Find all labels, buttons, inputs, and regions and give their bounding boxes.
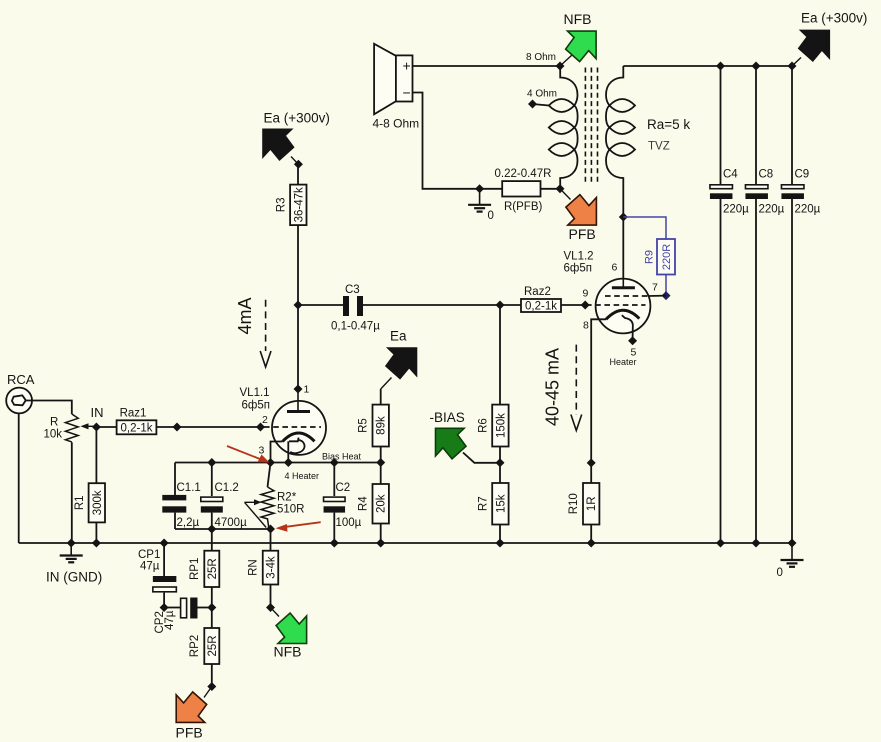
svg-text:0,2-1k: 0,2-1k — [121, 422, 153, 434]
svg-text:220R: 220R — [661, 244, 673, 270]
wire: primary bottom to VL1.2 plate (pin 6) — [622, 217, 624, 287]
svg-text:Ea (+300v): Ea (+300v) — [264, 111, 330, 126]
svg-text:RCA: RCA — [7, 372, 35, 387]
label C2 — [336, 482, 351, 494]
resistor Raz1 0,2-1k — [117, 407, 157, 434]
terminal: VL1.1 pin 1 — [294, 385, 303, 394]
value 47µ of CP2 — [164, 610, 176, 630]
wire: cathode node down through bus to RP1 (no connection at bus) — [211, 529, 213, 551]
label Ea (+300v) above R3 — [264, 111, 330, 126]
capacitor CP1 47µ — [153, 576, 177, 592]
svg-text:4 Heater: 4 Heater — [285, 471, 320, 481]
svg-text:NFB: NFB — [564, 11, 592, 27]
connector RCA — [6, 388, 32, 414]
label C1.1 — [177, 482, 201, 494]
value 4700µ of C1.2 — [215, 517, 248, 529]
wire: RN bottom to NFB node — [270, 585, 272, 608]
label TVZ — [648, 141, 670, 153]
svg-text:VL1.1: VL1.1 — [240, 387, 270, 399]
svg-text:R7: R7 — [477, 496, 489, 511]
svg-text:20k: 20k — [376, 494, 388, 513]
label IN — [91, 405, 104, 420]
svg-text:IN (GND): IN (GND) — [46, 570, 102, 585]
svg-text:NFB: NFB — [274, 644, 302, 660]
power arrow Ea (+300v) to R3 — [263, 129, 298, 164]
wire: RCA hot to pot top — [26, 401, 72, 415]
junction: pin 7 / R9 (navy) — [662, 291, 671, 300]
svg-text:0,1-0.47µ: 0,1-0.47µ — [331, 321, 380, 333]
svg-text:C3: C3 — [345, 284, 360, 296]
resistor Raz2 0,2-1k — [521, 286, 561, 313]
wire: CP1 node to CP2 — [164, 607, 180, 609]
label 4 Heater — [285, 471, 320, 481]
bias arrow -BIAS — [436, 428, 467, 459]
wire: IN node down to R1 — [95, 427, 97, 483]
svg-text:0: 0 — [488, 210, 494, 222]
value 220µ of C4 — [723, 204, 749, 216]
capacitor C1.1 2,2µ — [162, 495, 186, 513]
wire: 4 Ohm tap lead — [533, 104, 549, 106]
value 10k (pot) — [44, 429, 63, 441]
wire: bias node to -BIAS arrow — [463, 453, 500, 463]
resistor R(PFB) 0.22-0.47R — [495, 168, 552, 213]
svg-text:0,2-1k: 0,2-1k — [525, 301, 557, 313]
value 220µ of C9 — [795, 204, 821, 216]
wire: R2/RN node down through bus to RN (no connection at bus) — [270, 529, 272, 551]
svg-text:RN: RN — [248, 559, 260, 576]
wire: pin 8 cathode down to R10 — [591, 319, 606, 483]
wire: Ea node to R3 top — [297, 164, 299, 184]
label PFB top — [569, 226, 596, 242]
VL1.2 anode (pin 6) — [612, 279, 635, 288]
wire: R7 bottom to ground bus — [499, 525, 501, 544]
wire: C1.1 top lead — [174, 463, 176, 496]
label Heater (VL1.2) — [610, 357, 637, 367]
junction: C1.2 bottom — [207, 525, 216, 534]
svg-text:R9: R9 — [644, 250, 656, 264]
junction: CP1 top on bus — [160, 539, 169, 548]
svg-text:+: + — [403, 58, 411, 74]
label CP2 — [154, 611, 166, 633]
svg-text:RP1: RP1 — [189, 558, 201, 580]
VL1.1 grid (pin 2, dashed) — [264, 426, 321, 428]
pin label 8 — [583, 320, 589, 332]
svg-text:RP2: RP2 — [189, 635, 201, 657]
resistor R9 220R (blue) — [644, 239, 676, 275]
capacitor C1.2 4700µ — [201, 497, 223, 512]
pot R wiper arrow — [81, 423, 97, 429]
transformer primary winding — [606, 66, 635, 217]
wire: RCA ground side down — [18, 413, 20, 543]
junction: PFB terminal node — [207, 682, 216, 691]
junction: Ea arrow to R3 — [294, 160, 303, 169]
junction: heater pin 4 node — [284, 458, 293, 467]
label 8 Ohm — [526, 52, 556, 63]
value 100µ of C2 — [336, 517, 362, 529]
wire: speaker - to ground and R(PFB) — [413, 93, 503, 189]
value 220µ of C8 — [759, 204, 785, 216]
svg-text:4-8 Ohm: 4-8 Ohm — [373, 117, 420, 131]
potentiometer R 10k (input volume, zigzag) — [65, 414, 78, 442]
wire: R4 bottom to ground bus — [380, 524, 382, 544]
label R2* — [277, 492, 297, 504]
wire: node to RP2 top — [211, 608, 213, 629]
wire: speaker + to 8 Ohm tap — [413, 65, 561, 67]
wire: C1.2 bottom lead — [211, 513, 213, 529]
resistor RP2 25R — [189, 628, 220, 664]
wire: C3 to Raz2 — [363, 304, 521, 306]
wire: Raz2 to grid pin 9 — [561, 304, 586, 306]
wire: coupling line tap down to R6 — [499, 305, 501, 405]
svg-text:R(PFB): R(PFB) — [504, 201, 543, 213]
label Ea (+300v) top-right — [801, 11, 867, 26]
junction: pin 3 cathode node — [266, 458, 275, 467]
label Ea (above R5) — [390, 329, 407, 344]
label RCA — [7, 372, 35, 387]
capacitor C8 220µ (electrolytic) — [745, 185, 768, 199]
junction: C8 top on +300V bus — [752, 62, 761, 71]
svg-text:25R: 25R — [207, 558, 219, 579]
label Ra=5 k — [647, 117, 690, 132]
svg-text:VL1.2: VL1.2 — [564, 251, 594, 263]
junction: plate node / R9 tap — [619, 213, 628, 222]
wire: pin 7 to R9 node — [649, 295, 667, 297]
svg-text:300k: 300k — [92, 490, 104, 515]
annotation red arrow (to pin 3 node) — [227, 446, 270, 463]
VL1.1 anode (pin 1) — [287, 389, 310, 412]
label C3 — [345, 284, 360, 296]
potentiometer R2* 510R (rheostat zigzag) — [245, 487, 275, 529]
junction: C9 bottom / bus end — [788, 539, 797, 548]
current annotation 40-45 mA — [543, 345, 582, 431]
svg-text:47µ: 47µ — [164, 610, 176, 630]
ground 0 (bottom right) — [777, 543, 804, 579]
wire: cathode rail (pin3/heater/C2/R5R4 node) — [175, 462, 381, 464]
wire: Raz1 to VL1.1 grid pin 2 — [156, 426, 264, 428]
svg-text:C8: C8 — [759, 169, 774, 181]
svg-text:100µ: 100µ — [336, 517, 362, 529]
svg-text:1R: 1R — [586, 496, 598, 511]
label NFB top — [564, 11, 592, 27]
svg-text:1: 1 — [304, 384, 310, 396]
svg-text:150k: 150k — [495, 413, 507, 438]
terminal: heater pin 5 — [628, 336, 637, 345]
junction: secondary bottom / PFB node — [556, 184, 565, 193]
junction: C2 bottom on bus — [330, 539, 339, 548]
svg-text:0.22-0.47R: 0.22-0.47R — [495, 168, 552, 180]
resistor RN 3-4k — [248, 551, 279, 585]
pin label 9 — [583, 288, 589, 300]
label CP1 — [138, 549, 160, 561]
triode VL1.1 (6ф5п) envelope — [272, 401, 326, 455]
resistor R7 15k — [477, 483, 508, 525]
svg-text:R10: R10 — [568, 493, 580, 514]
svg-text:3-4k: 3-4k — [266, 556, 278, 579]
wire: R6 bottom to bias node — [499, 447, 501, 463]
wire: R3 bottom to VL1.1 plate (pin 1) — [297, 225, 299, 389]
svg-text:R1: R1 — [74, 495, 86, 510]
capacitor C9 220µ (electrolytic) — [781, 185, 804, 199]
svg-text:2,2µ: 2,2µ — [177, 517, 200, 529]
svg-text:36-47k: 36-47k — [293, 187, 305, 222]
resistor R6 150k — [477, 405, 508, 447]
label VL1.2 — [564, 251, 594, 263]
capacitor C3 0,1-0.47µ — [343, 296, 363, 316]
label VL1.1 — [240, 387, 270, 399]
svg-text:220µ: 220µ — [795, 204, 821, 216]
label -BIAS — [430, 410, 465, 425]
svg-text:15k: 15k — [495, 494, 507, 513]
junction: C2 top — [330, 458, 339, 467]
label 4-8 Ohm — [373, 117, 420, 131]
label 6ф5п (VL1.2) — [564, 263, 592, 275]
wire: C8 lower lead down to ground bus — [755, 199, 757, 543]
junction: pin 8 wire node — [587, 458, 596, 467]
svg-text:Ra=5 k: Ra=5 k — [647, 117, 690, 132]
svg-text:9: 9 — [583, 288, 589, 300]
triode VL1.2 (6ф5п) envelope — [596, 279, 651, 334]
junction: C4 bottom on bus — [716, 539, 725, 548]
wire: bias node to R7 top — [499, 463, 501, 483]
wire: R10 bottom to ground bus — [590, 525, 592, 544]
label PFB bottom — [176, 725, 203, 741]
resistor RP1 25R — [189, 551, 220, 587]
value 47µ of CP1 — [140, 561, 160, 573]
label 6ф5п (VL1.1) — [242, 400, 270, 412]
junction: C4 top on +300V bus — [716, 62, 725, 71]
wire: C8 upper lead — [755, 66, 757, 185]
feedback arrow NFB (bottom) — [271, 608, 307, 644]
wire: C2 bottom lead — [333, 513, 335, 543]
svg-text:220µ: 220µ — [723, 204, 749, 216]
svg-text:40-45 mA: 40-45 mA — [543, 348, 563, 426]
capacitor CP2 47µ (horizontal) — [181, 598, 198, 619]
junction: R1 bottom on bus — [92, 539, 101, 548]
wire: pin3 node down to R2 — [268, 463, 271, 488]
junction: grid pin 9 node — [581, 301, 590, 310]
junction: R4 bottom on bus — [376, 539, 385, 548]
svg-text:IN: IN — [91, 405, 104, 420]
label C8 — [759, 169, 774, 181]
VL1.2 cathode — [606, 310, 639, 337]
speaker 4-8 Ohm — [374, 44, 412, 115]
junction: 8 Ohm tap (secondary top) — [556, 62, 565, 71]
label Bias Heat — [322, 452, 362, 462]
ground IN (GND) — [60, 543, 83, 562]
label C4 — [723, 169, 738, 181]
wire: R(PFB) to transformer secondary bottom — [541, 188, 561, 190]
svg-text:89k: 89k — [376, 416, 388, 435]
svg-text:4 Ohm: 4 Ohm — [527, 89, 557, 100]
wire: C2 top lead — [333, 463, 335, 497]
junction: R6 tap on coupling line — [496, 301, 505, 310]
pin label 7 — [652, 282, 658, 294]
pin label 5 — [631, 347, 637, 359]
svg-text:47µ: 47µ — [140, 561, 160, 573]
svg-text:R6: R6 — [477, 418, 489, 433]
junction: NFB terminal node — [266, 603, 275, 612]
svg-text:220µ: 220µ — [759, 204, 785, 216]
junction: R2 bottom / RN node — [266, 525, 275, 534]
wire (blue): R9 bottom to pin 7 — [665, 275, 667, 296]
svg-text:Ea: Ea — [390, 329, 407, 344]
svg-text:8 Ohm: 8 Ohm — [526, 52, 556, 63]
wire (blue): plate node to R9 top — [623, 217, 666, 239]
svg-text:C1.2: C1.2 — [215, 482, 239, 494]
wire: IN node to Raz1 — [96, 426, 116, 428]
junction: pot bottom on bus — [67, 539, 76, 548]
feedback arrow PFB (bottom) — [176, 687, 212, 723]
wire: divider node to R4 top — [380, 463, 382, 485]
resistor R4 20k — [358, 484, 389, 524]
svg-text:C2: C2 — [336, 482, 351, 494]
svg-text:CP1: CP1 — [138, 549, 160, 561]
label 4 Ohm — [527, 89, 557, 100]
svg-text:6ф5п: 6ф5п — [564, 263, 592, 275]
wire: C9 lower lead down to ground bus — [791, 199, 793, 543]
svg-text:TVZ: TVZ — [648, 141, 670, 153]
wire: C1.1 bottom lead — [174, 513, 176, 529]
svg-text:8: 8 — [583, 320, 589, 332]
junction: speaker return / R(PFB) left — [475, 184, 484, 193]
wire: cathode bottom rail — [175, 528, 271, 530]
power arrow Ea to R5 — [381, 348, 417, 389]
junction: RP1/RP2/CP2 node — [207, 603, 216, 612]
pin label 2 — [262, 414, 268, 426]
wire: R5 bottom to divider node — [380, 447, 382, 463]
wire: pot bottom to ground bus — [71, 442, 73, 543]
svg-text:Bias Heat: Bias Heat — [322, 452, 362, 462]
wire: CP1 top lead — [163, 543, 165, 576]
wire: +300V bus from output transformer primary top to top-right corner — [623, 65, 792, 67]
label IN (GND) — [46, 570, 102, 585]
capacitor C4 220µ (electrolytic) — [710, 185, 733, 199]
wire: R1 bottom to ground bus — [95, 522, 97, 543]
junction: CP1/CP2 node — [160, 603, 169, 612]
label C9 — [795, 169, 810, 181]
terminal: 4 Ohm tap — [528, 100, 537, 109]
svg-text:2: 2 — [262, 414, 268, 426]
transformer secondary winding — [549, 66, 578, 189]
svg-text:C1.1: C1.1 — [177, 482, 201, 494]
resistor R3 36-47k — [275, 185, 306, 226]
label NFB bottom — [274, 644, 302, 660]
junction: R6/R7 bias node — [496, 458, 505, 467]
svg-text:−: − — [403, 85, 411, 101]
svg-text:10k: 10k — [44, 429, 63, 441]
wire: CP1 bottom lead — [163, 593, 165, 608]
svg-text:R3: R3 — [275, 197, 287, 212]
svg-text:R5: R5 — [358, 418, 370, 433]
wire: RP1 bottom to node — [211, 587, 213, 608]
svg-text:C9: C9 — [795, 169, 810, 181]
svg-text:PFB: PFB — [176, 725, 203, 741]
feedback arrow PFB (top, from secondary bottom) — [560, 189, 596, 225]
pin label 6 — [612, 262, 618, 274]
svg-text:7: 7 — [652, 282, 658, 294]
svg-text:Raz1: Raz1 — [120, 407, 147, 419]
VL1.1 cathode — [283, 433, 315, 453]
junction: grid wire node — [173, 423, 182, 432]
label C1.2 — [215, 482, 239, 494]
resistor R1 300k — [74, 483, 105, 522]
wire: C4 upper lead — [720, 66, 722, 185]
wire: C4 lower lead down to ground bus — [720, 199, 722, 543]
svg-text:Heater: Heater — [610, 357, 637, 367]
wire: cathode pin 3 to cathode rail — [271, 442, 283, 463]
annotation red arrow (to R2 bottom node) — [276, 522, 321, 532]
svg-text:R2*: R2* — [277, 492, 297, 504]
svg-text:PFB: PFB — [569, 226, 596, 242]
VL1.2 grid (pins 7/9, dashed) — [586, 296, 649, 305]
current annotation 4mA — [235, 297, 271, 367]
wire: C9 upper lead — [791, 66, 793, 185]
pin label 1 — [304, 384, 310, 396]
svg-text:C4: C4 — [723, 169, 738, 181]
wire: heater pin 4 lead — [287, 441, 289, 462]
value 2,2µ of C1.1 — [177, 517, 200, 529]
wire: Ea arrow to R5 top — [380, 389, 382, 405]
svg-text:R4: R4 — [358, 496, 370, 511]
wire: VL1.1 plate node to C3 — [298, 304, 343, 306]
value 510R of R2* — [277, 504, 305, 516]
wire: main ground bus — [19, 542, 792, 544]
transformer core (laminations) — [585, 68, 597, 184]
svg-text:R: R — [50, 417, 58, 429]
ground at speaker return (0) — [468, 189, 494, 222]
junction: IN node (wiper/Raz1/R1) — [92, 423, 101, 432]
junction: C1.2 top — [207, 458, 216, 467]
power arrow Ea (+300v) top-right — [792, 30, 829, 66]
junction: C9 top / bus end corner — [788, 62, 797, 71]
capacitor C2 100µ — [324, 497, 346, 512]
resistor R10 1R — [568, 483, 599, 525]
svg-text:4700µ: 4700µ — [215, 517, 248, 529]
svg-text:6: 6 — [612, 262, 618, 274]
svg-text:-BIAS: -BIAS — [430, 410, 465, 425]
svg-text:510R: 510R — [277, 504, 305, 516]
svg-text:Ea (+300v): Ea (+300v) — [801, 11, 867, 26]
label R (pot) — [50, 417, 58, 429]
feedback arrow NFB (top, from 8 Ohm tap) — [560, 31, 596, 66]
svg-text:Raz2: Raz2 — [524, 286, 551, 298]
junction: plate node / C3 tap — [294, 301, 303, 310]
wire: CP2 to RP1/RP2 node — [198, 607, 212, 609]
resistor R5 89k — [358, 405, 389, 447]
junction: R10 bottom on bus — [587, 539, 596, 548]
junction: C8 bottom on bus — [752, 539, 761, 548]
svg-text:25R: 25R — [207, 635, 219, 656]
terminal: VL1.1 pin 2 — [256, 423, 265, 432]
svg-text:6ф5п: 6ф5п — [242, 400, 270, 412]
svg-text:4mA: 4mA — [235, 297, 255, 334]
svg-text:0: 0 — [777, 567, 783, 579]
junction: R7 bottom on bus — [496, 539, 505, 548]
junction: R5/R4 divider node — [376, 458, 385, 467]
pin label 3 — [259, 445, 265, 457]
wire: RP2 bottom to PFB node — [211, 664, 213, 687]
wire: C1.2 top lead — [211, 463, 213, 497]
value 0,1-0.47µ of C3 — [331, 321, 380, 333]
